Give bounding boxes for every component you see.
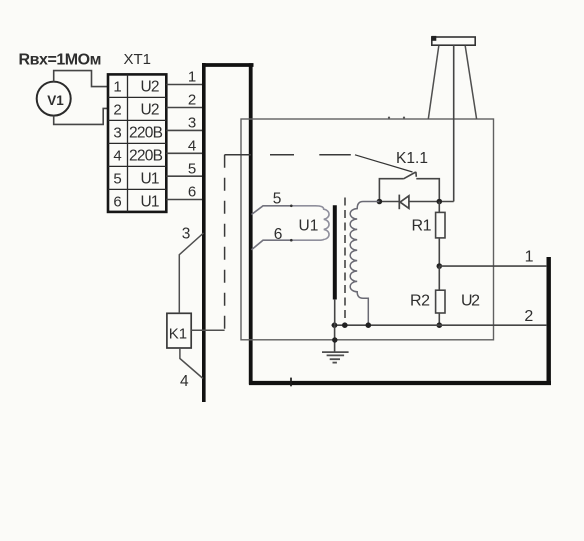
svg-text:Rвх=1МОм: Rвх=1МОм: [19, 52, 102, 69]
diode VD: [399, 195, 409, 210]
antenna left leg: [428, 46, 439, 119]
shield wall left leg: [202, 63, 206, 402]
wire V1 bottom lead to XT1 pin 2: [54, 108, 108, 124]
wire R2 top: [438, 266, 440, 290]
svg-text:3: 3: [182, 225, 191, 242]
wire V1 top lead to XT1 pin 1: [54, 71, 108, 87]
wire 5 diagonal from shield: [252, 206, 293, 215]
svg-text:220В: 220В: [129, 148, 163, 165]
svg-text:3: 3: [113, 125, 121, 142]
node on enclosure bottom: [332, 337, 337, 342]
node R2 bottom: [437, 322, 443, 328]
svg-text:1: 1: [188, 69, 196, 86]
relay linkage dashed horizontal: [225, 154, 353, 156]
svg-text:6: 6: [274, 226, 283, 243]
svg-text:4: 4: [113, 148, 121, 165]
svg-text:5: 5: [273, 191, 282, 208]
tick on wire 6: [290, 239, 293, 242]
svg-text:2: 2: [113, 102, 121, 119]
node left of diode: [377, 199, 383, 205]
svg-text:5: 5: [113, 171, 121, 188]
svg-text:2: 2: [524, 308, 533, 325]
svg-text:K1: K1: [169, 325, 187, 342]
antenna plate electrode: [432, 37, 475, 45]
wire R2 bottom: [438, 313, 440, 325]
wire output 2 / common bottom wire: [332, 324, 548, 326]
enclosure box of device: [241, 119, 494, 340]
relay linkage dashed vertical: [224, 155, 226, 330]
svg-text:U1: U1: [141, 171, 160, 188]
wire conductor 1 from XT1 to shield: [166, 84, 203, 86]
terminal block XT1: [108, 74, 166, 212]
resistor R2: [436, 290, 445, 313]
wire conductor 3 from XT1 to shield: [166, 129, 203, 131]
svg-text:U2: U2: [141, 102, 160, 119]
wire conductor 4 from XT1 to shield: [166, 152, 203, 154]
transformer core dashed line: [344, 198, 346, 322]
transformer core bar: [333, 205, 337, 299]
svg-text:6: 6: [113, 194, 121, 211]
speck on enclosure top: [388, 117, 390, 119]
antenna right leg: [465, 46, 476, 119]
wire R1 top: [438, 202, 440, 213]
svg-text:220В: 220В: [129, 125, 163, 142]
node secondary bottom: [366, 322, 372, 328]
wire secondary top to diode branch: [379, 201, 399, 203]
tick on wire 5: [290, 205, 293, 208]
svg-text:R2: R2: [410, 293, 430, 310]
resistor R1: [436, 212, 445, 238]
relay contact K1.1 branch: [379, 172, 439, 202]
svg-text:4: 4: [180, 373, 189, 390]
svg-text:U1: U1: [299, 218, 319, 235]
wire K1 to linkage dash: [191, 329, 224, 331]
transformer T1 secondary winding: [350, 202, 379, 326]
node dashed core line bottom: [342, 322, 348, 328]
ground symbol: [322, 352, 349, 363]
wire conductor 5 from XT1 to shield: [166, 175, 203, 177]
wire conductor 2 from XT1 to shield: [166, 107, 203, 109]
wire ground tap down: [334, 325, 336, 352]
node ground tap: [332, 322, 338, 328]
shield wall top bar: [202, 63, 254, 67]
svg-text:1: 1: [113, 79, 121, 96]
relay coil K1: [167, 313, 191, 348]
shield right wall: [547, 257, 551, 384]
wire R1 bottom to node: [438, 238, 440, 266]
svg-text:4: 4: [188, 137, 196, 154]
tick mark on shield bottom bar: [290, 378, 292, 387]
antenna plate corner mark: [432, 36, 437, 41]
svg-text:U1: U1: [141, 194, 160, 211]
svg-text:U2: U2: [141, 79, 160, 96]
wire core bottom to bottom wire: [334, 299, 336, 325]
antenna center conductor: [453, 45, 455, 202]
wire 6 diagonal from shield: [252, 240, 293, 250]
wire 3 to K1: [179, 233, 203, 313]
transformer T1 primary winding with wire 5 and wire 6: [292, 206, 329, 240]
svg-text:K1.1: K1.1: [396, 150, 428, 167]
svg-text:U2: U2: [461, 293, 480, 310]
svg-text:3: 3: [188, 115, 196, 132]
XT1 pin numbers column: [113, 79, 121, 211]
svg-text:6: 6: [188, 184, 196, 201]
svg-text:1: 1: [525, 249, 534, 266]
shield wall right leg: [249, 63, 253, 384]
wire 4 from K1 to shield: [180, 348, 203, 379]
svg-text:2: 2: [188, 92, 196, 109]
svg-text:R1: R1: [412, 218, 432, 235]
wire conductor 6 from XT1 to shield: [166, 199, 203, 201]
svg-text:V1: V1: [47, 93, 64, 108]
svg-text:5: 5: [188, 160, 196, 177]
XT1 net labels column: [129, 79, 163, 211]
node right of diode: [437, 199, 443, 205]
leader line to contact K1.1: [355, 155, 413, 172]
shield bottom bar: [249, 381, 551, 385]
svg-text:XT1: XT1: [124, 51, 152, 68]
wire output 1: [439, 265, 547, 267]
voltmeter V1: [37, 82, 71, 116]
node divider tap: [437, 263, 443, 269]
speck on enclosure top: [403, 117, 405, 119]
